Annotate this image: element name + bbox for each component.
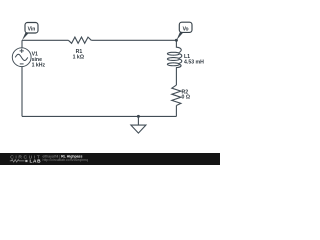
resistor R2	[172, 85, 181, 105]
node Vo flag box	[179, 22, 192, 32]
svg-text:0 Ω: 0 Ω	[182, 95, 191, 101]
Vin flag pointer	[22, 32, 29, 40]
node Vo junction dot	[175, 39, 178, 42]
svg-text:1 kHz: 1 kHz	[32, 62, 46, 68]
V1 plus sign	[20, 49, 24, 53]
wire left vertical lower	[21, 67, 23, 117]
wire top from Vin node to R1	[22, 39, 68, 41]
svg-text:Vo: Vo	[183, 26, 189, 32]
V1 minus sign	[20, 63, 24, 65]
wire top from R1 to Vo node	[91, 39, 176, 41]
Vo flag pointer	[176, 32, 183, 40]
footer bar	[0, 153, 220, 165]
svg-text:LAB: LAB	[30, 159, 42, 165]
ground symbol triangle	[131, 125, 146, 133]
voltage source V1 circle	[12, 48, 31, 67]
V1 sine waveform	[15, 54, 28, 60]
svg-text:http://circuitlab.com/c6eqbmq: http://circuitlab.com/c6eqbmq	[43, 158, 89, 162]
svg-text:4.53 mH: 4.53 mH	[184, 59, 204, 65]
svg-text:1 kΩ: 1 kΩ	[73, 54, 84, 60]
footer logo zigzag wire	[10, 160, 25, 163]
footer logo LAB	[25, 160, 27, 162]
node Vin flag box	[25, 23, 38, 34]
ground stub wire	[137, 116, 139, 125]
svg-text:Vin: Vin	[28, 27, 36, 33]
resistor R1	[68, 37, 91, 43]
wire bottom	[22, 115, 176, 117]
ground junction dot	[137, 115, 140, 118]
inductor L1	[167, 40, 181, 85]
wire left vertical upper	[21, 40, 23, 47]
wire right vertical bottom	[175, 106, 177, 117]
